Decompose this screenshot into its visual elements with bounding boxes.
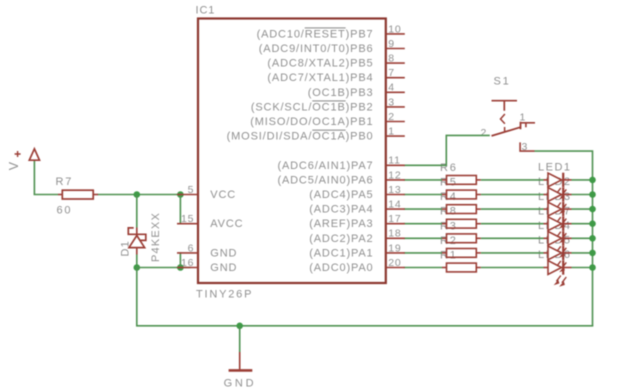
wire resistor to LED row 5 — [481, 237, 544, 239]
switch S1 pin 3 contact — [520, 142, 534, 151]
wire AVCC branch — [179, 195, 181, 224]
resistor R6 — [442, 179, 447, 181]
node LED rail junction row 5 — [589, 235, 596, 242]
svg-text:R8: R8 — [440, 206, 458, 218]
svg-text:(ADC0)PA0: (ADC0)PA0 — [309, 262, 373, 274]
supply symbol V+ triangle — [29, 149, 39, 160]
wire pin to resistor row 6 — [404, 252, 442, 254]
svg-text:TINY26P: TINY26P — [196, 289, 253, 301]
svg-text:(ADC1)PA1: (ADC1)PA1 — [309, 247, 373, 259]
wire LED cathode to rail row 6 — [572, 252, 593, 254]
svg-text:(ADC3)PA4: (ADC3)PA4 — [309, 204, 373, 216]
wire switch pin3 to LED rail — [535, 151, 593, 326]
switch S1 actuator bar — [492, 101, 518, 111]
svg-text:GND: GND — [224, 378, 257, 390]
wire D1 down to bottom rail — [136, 268, 138, 326]
IC1 pin 12 stub — [386, 179, 405, 181]
resistor R1 — [442, 267, 447, 269]
svg-text:R3: R3 — [440, 220, 458, 232]
ground symbol GND — [239, 352, 241, 369]
svg-text:(OC1B)PB3: (OC1B)PB3 — [308, 87, 374, 99]
node LED rail junction row 4 — [589, 220, 596, 227]
wire LED cathode to rail row 3 — [572, 208, 593, 210]
IC1 pin 9 stub — [386, 48, 405, 50]
supply symbol V+ plus sign — [15, 151, 21, 157]
node junction R7/D1/VCC — [134, 191, 141, 198]
svg-text:AVCC: AVCC — [210, 218, 243, 230]
IC1 pin 15 stub — [177, 223, 198, 225]
node junction GND symbol — [236, 323, 243, 330]
wire bottom rail — [136, 325, 593, 327]
svg-text:R1: R1 — [440, 250, 458, 262]
svg-text:60: 60 — [57, 205, 73, 217]
LED LED7 — [544, 217, 572, 244]
svg-text:(ADC10/RESET)PB7: (ADC10/RESET)PB7 — [257, 28, 374, 40]
wire PA7 to switch pin2 — [404, 135, 490, 165]
switch S1 spring chevron — [501, 114, 505, 131]
resistor R8 — [442, 223, 447, 225]
IC1 pin 5 stub — [177, 194, 198, 196]
LED LED6 — [544, 260, 572, 287]
wire VCC to D1 cathode — [136, 195, 138, 228]
wire pin to resistor row 7 — [404, 267, 442, 269]
resistor R4 — [442, 208, 447, 210]
node junction AVCC branch — [177, 191, 184, 198]
svg-text:(MOSI/DI/SDA/OC1A)PB0: (MOSI/DI/SDA/OC1A)PB0 — [227, 131, 374, 143]
svg-text:P4KEXX: P4KEXX — [150, 212, 162, 262]
resistor R3 — [442, 237, 447, 239]
svg-text:2: 2 — [481, 127, 488, 139]
wire GND pin6 branch — [179, 253, 181, 267]
IC1 pin 19 stub — [386, 252, 405, 254]
IC1 pin 17 stub — [386, 223, 405, 225]
svg-text:(ADC5/AIN0)PA6: (ADC5/AIN0)PA6 — [277, 174, 373, 186]
resistor R5 — [442, 194, 447, 196]
IC1 pin 3 stub — [386, 106, 405, 108]
IC1 pin 8 stub — [386, 62, 405, 64]
node LED rail junction row 7 — [589, 264, 596, 271]
IC1 pin 1 stub — [386, 135, 405, 137]
svg-text:GND: GND — [210, 262, 237, 274]
svg-text:GND: GND — [210, 247, 237, 259]
wire resistor to LED row 3 — [481, 208, 544, 210]
node LED rail junction row 3 — [589, 206, 596, 213]
IC U1/IC1 TINY26P body — [198, 19, 386, 284]
diode D1 P4KEXX — [136, 228, 138, 248]
wire to GND symbol — [239, 326, 241, 352]
wire R7 to VCC pin — [98, 194, 179, 196]
IC1 pin 18 stub — [386, 237, 405, 239]
IC1 pin 11 stub — [386, 164, 405, 166]
node LED rail junction row 2 — [589, 191, 596, 198]
IC1 pin 10 stub — [386, 33, 405, 35]
svg-text:(ADC6/AIN1)PA7: (ADC6/AIN1)PA7 — [277, 160, 373, 172]
IC1 pin 6 stub — [177, 252, 198, 254]
svg-text:S1: S1 — [494, 76, 511, 88]
node LED rail junction row 1 — [589, 177, 596, 184]
wire LED cathode to rail row 7 — [572, 267, 593, 269]
svg-text:(ADC9/INT0/T0)PB6: (ADC9/INT0/T0)PB6 — [259, 43, 374, 55]
svg-text:R6: R6 — [440, 162, 458, 174]
resistor R7 (60 ohm) — [58, 194, 62, 196]
LED LED1 — [544, 173, 572, 200]
IC1 pin 20 stub — [386, 267, 405, 269]
IC1 pin 13 stub — [386, 194, 405, 196]
svg-text:(ADC4)PA5: (ADC4)PA5 — [309, 189, 373, 201]
wire GND row to pin16 — [136, 267, 190, 269]
wire pin to resistor row 1 — [404, 179, 442, 181]
svg-text:(ADC7/XTAL1)PB4: (ADC7/XTAL1)PB4 — [267, 72, 373, 84]
wire D1 anode to GND net — [136, 255, 138, 268]
wire pin to resistor row 4 — [404, 223, 442, 225]
resistor R2 — [442, 252, 447, 254]
IC1 pin 16 stub — [177, 267, 198, 269]
node LED rail junction row 6 — [589, 250, 596, 257]
wire LED cathode to rail row 4 — [572, 223, 593, 225]
svg-text:(ADC2)PA2: (ADC2)PA2 — [309, 233, 373, 245]
wire resistor to LED row 1 — [481, 179, 544, 181]
wire resistor to LED row 4 — [481, 223, 544, 225]
node junction D1/GND — [134, 264, 141, 271]
wire LED cathode to rail row 2 — [572, 194, 593, 196]
IC1 pin 7 stub — [386, 77, 405, 79]
switch S1 lever — [492, 122, 521, 136]
svg-text:IC1: IC1 — [196, 5, 216, 17]
svg-text:(SCK/SCL/OC1B)PB2: (SCK/SCL/OC1B)PB2 — [251, 101, 374, 113]
IC1 pin 14 stub — [386, 208, 405, 210]
wire resistor to LED row 2 — [481, 194, 544, 196]
LED LED4 — [544, 231, 572, 258]
svg-text:V: V — [7, 161, 21, 171]
svg-text:(MISO/DO/OC1A)PB1: (MISO/DO/OC1A)PB1 — [250, 116, 373, 128]
svg-text:VCC: VCC — [210, 189, 236, 201]
wire resistor to LED row 7 — [481, 267, 544, 269]
svg-text:LED1: LED1 — [538, 162, 572, 174]
LED LED3 — [544, 202, 572, 229]
wire V+ down — [33, 160, 35, 194]
svg-text:R2: R2 — [440, 235, 458, 247]
wire LED cathode to rail row 1 — [572, 179, 593, 181]
node junction GND pin6 branch — [177, 264, 184, 271]
wire pin to resistor row 3 — [404, 208, 442, 210]
svg-text:R4: R4 — [440, 191, 458, 203]
LED LED2 — [544, 187, 572, 214]
svg-text:(ADC8/XTAL2)PB5: (ADC8/XTAL2)PB5 — [267, 58, 373, 70]
svg-text:(AREF)PA3: (AREF)PA3 — [309, 218, 373, 230]
IC1 pin 4 stub — [386, 91, 405, 93]
svg-text:R5: R5 — [440, 177, 458, 189]
LED LED5 — [544, 246, 572, 273]
svg-text:R7: R7 — [56, 176, 74, 188]
wire LED cathode to rail row 5 — [572, 237, 593, 239]
wire V+ to R7 — [34, 194, 58, 196]
wire resistor to LED row 6 — [481, 252, 544, 254]
wire pin to resistor row 5 — [404, 237, 442, 239]
wire pin to resistor row 2 — [404, 194, 442, 196]
IC1 pin 2 stub — [386, 121, 405, 123]
switch S1 pin 1 contact — [521, 123, 536, 127]
